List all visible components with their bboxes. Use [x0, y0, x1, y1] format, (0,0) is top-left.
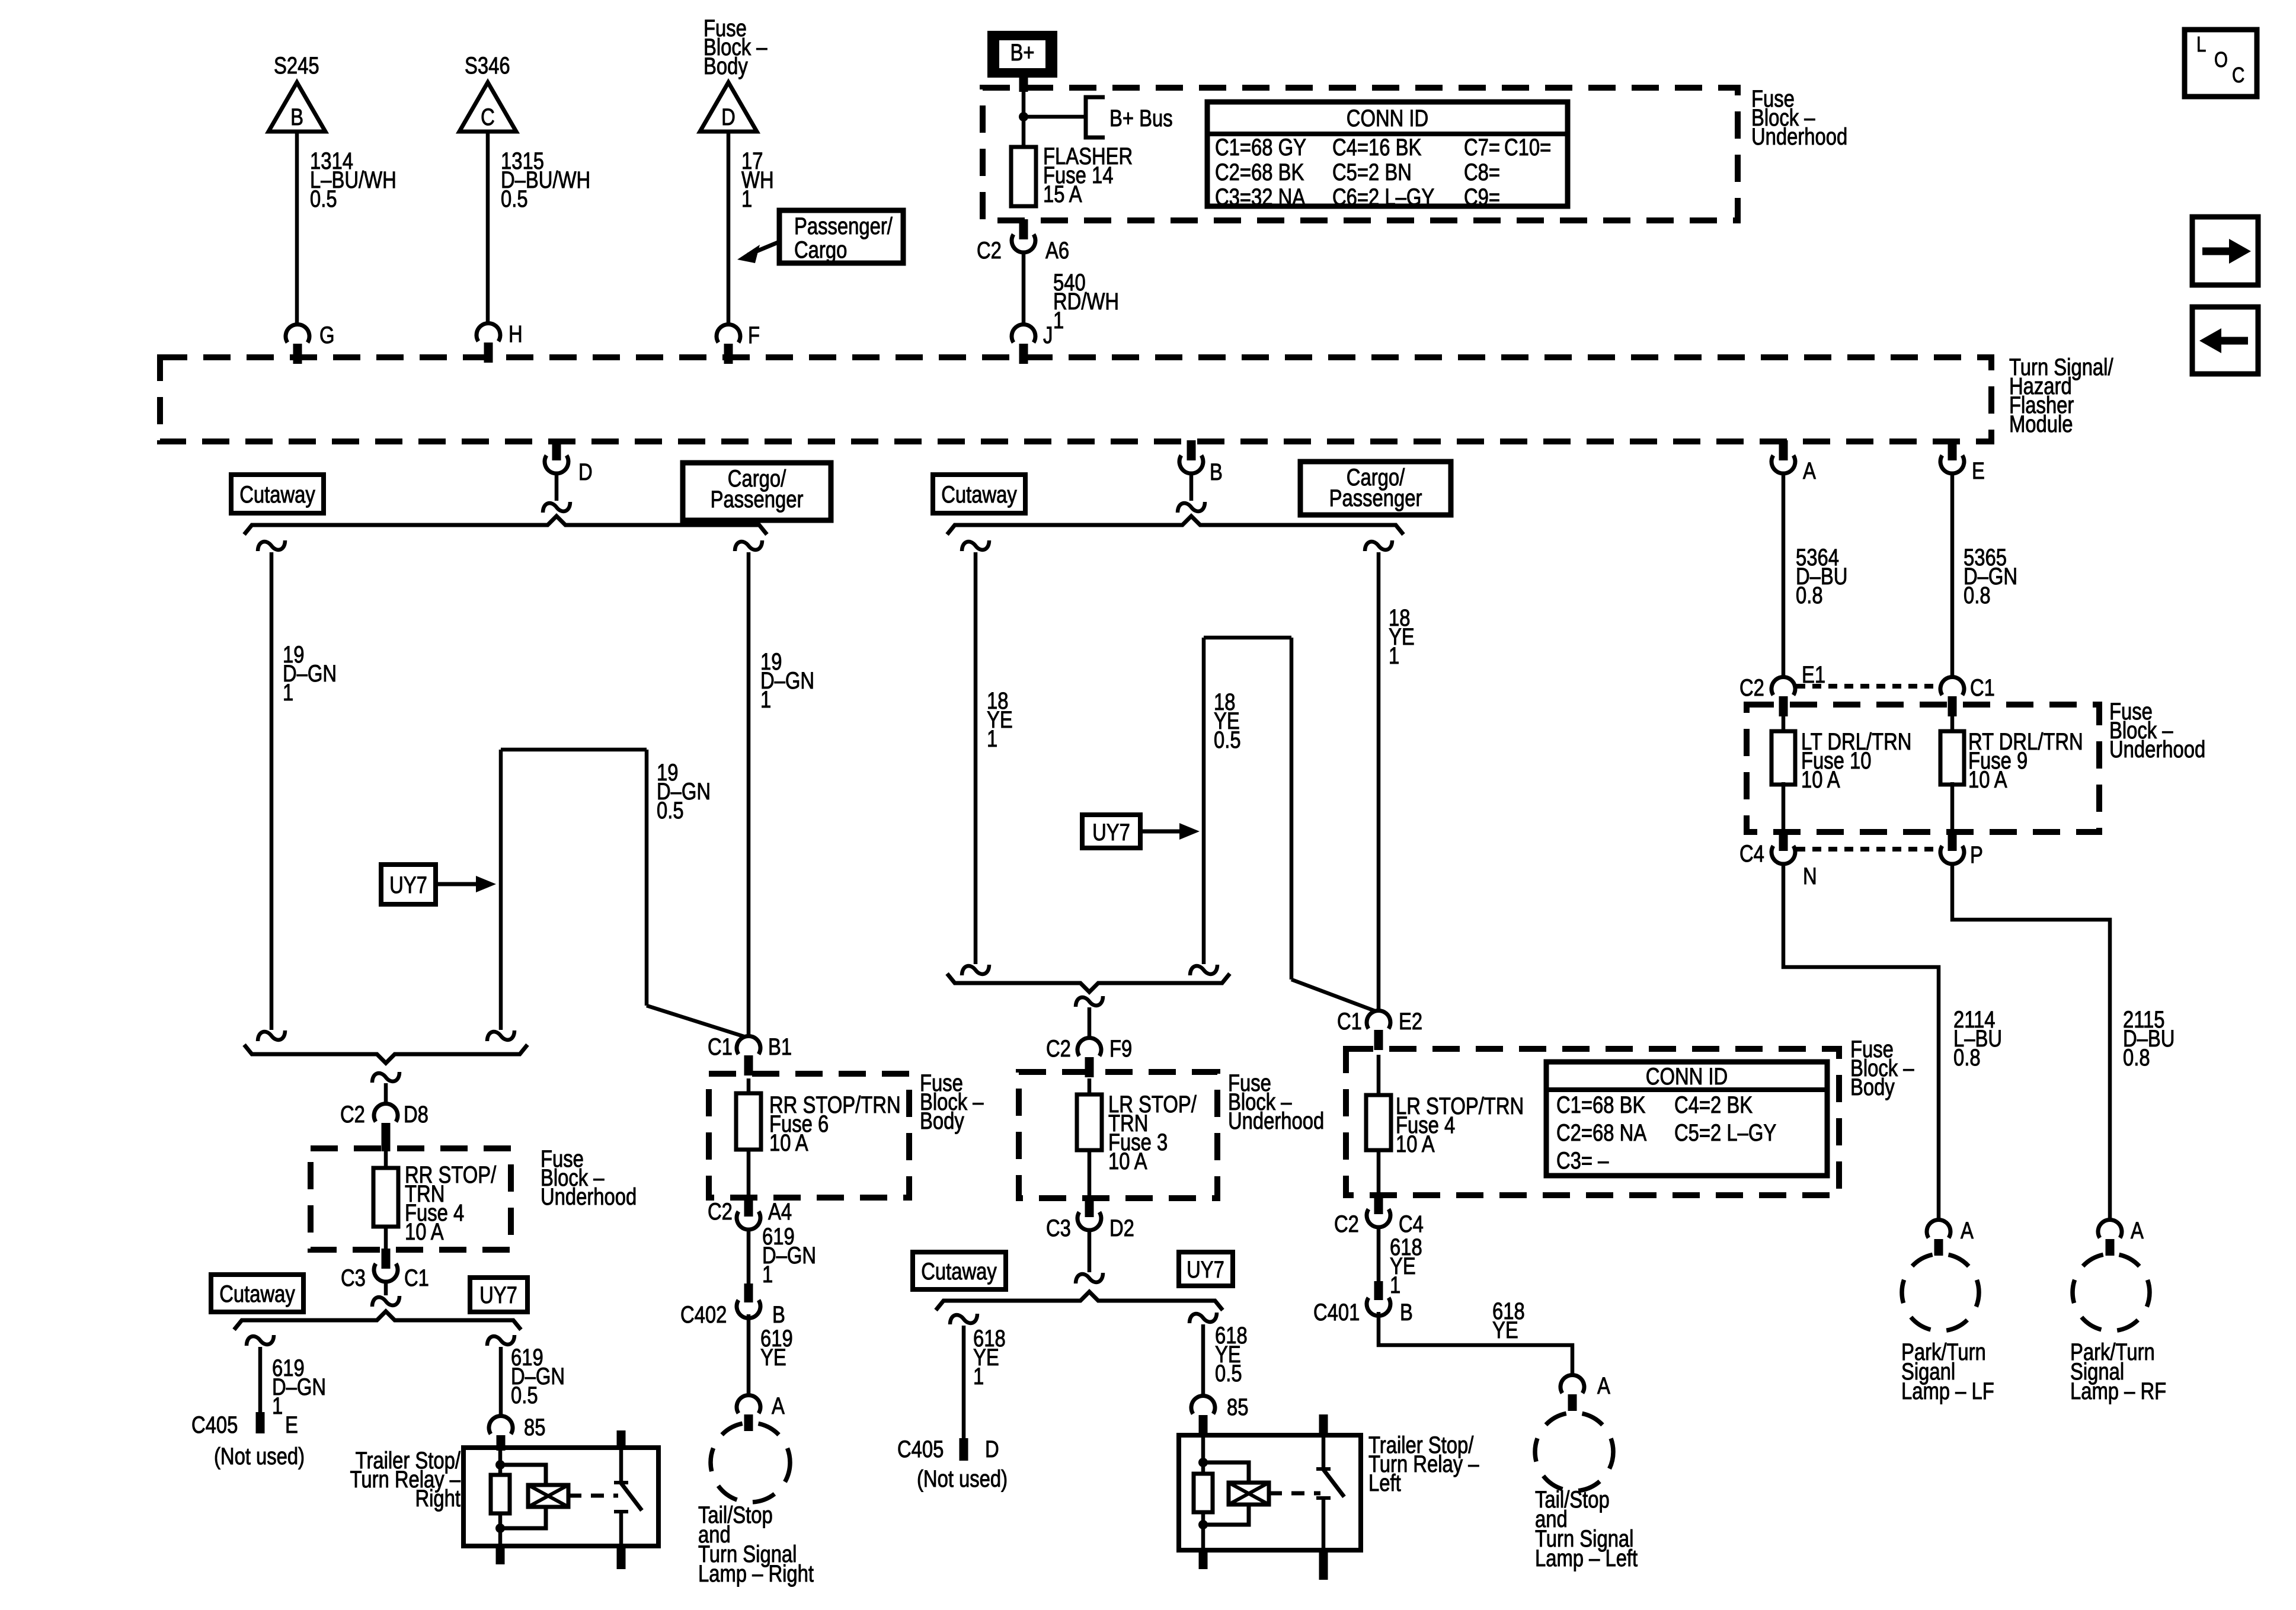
svg-text:B: B — [1400, 1299, 1413, 1326]
svg-text:(Not used): (Not used) — [214, 1443, 305, 1470]
svg-text:YE: YE — [760, 1344, 786, 1371]
svg-text:A: A — [1961, 1217, 1974, 1244]
svg-text:0.5: 0.5 — [657, 797, 684, 824]
svg-text:UY7: UY7 — [479, 1282, 517, 1308]
svg-text:C9=: C9= — [1464, 184, 1500, 210]
svg-text:Cutaway: Cutaway — [921, 1258, 997, 1285]
svg-text:1: 1 — [973, 1363, 984, 1390]
svg-text:10 A: 10 A — [1968, 766, 2007, 793]
svg-text:1: 1 — [1389, 642, 1399, 669]
svg-text:Cutaway: Cutaway — [941, 481, 1017, 508]
svg-text:O: O — [2214, 47, 2228, 71]
svg-text:C2=68 BK: C2=68 BK — [1215, 159, 1304, 185]
svg-text:C7=: C7= — [1464, 134, 1500, 161]
svg-text:Right: Right — [415, 1485, 461, 1512]
svg-text:C1=68 BK: C1=68 BK — [1556, 1092, 1645, 1118]
svg-text:A: A — [1597, 1372, 1610, 1399]
svg-text:15 A: 15 A — [1043, 181, 1082, 207]
svg-text:Passenger: Passenger — [1329, 485, 1422, 511]
svg-text:0.5: 0.5 — [310, 185, 337, 212]
svg-text:C6=2 L–GY: C6=2 L–GY — [1332, 184, 1434, 210]
svg-text:UY7: UY7 — [1187, 1256, 1224, 1283]
svg-text:Lamp – LF: Lamp – LF — [1901, 1378, 1994, 1404]
svg-text:C5=2 BN: C5=2 BN — [1332, 159, 1412, 185]
svg-text:Body: Body — [920, 1108, 964, 1134]
svg-text:C4: C4 — [1739, 840, 1764, 867]
svg-text:0.5: 0.5 — [501, 185, 528, 212]
svg-text:85: 85 — [1227, 1394, 1248, 1420]
svg-text:Underhood: Underhood — [541, 1183, 637, 1210]
svg-text:C4=16 BK: C4=16 BK — [1332, 134, 1421, 161]
svg-text:C2: C2 — [1046, 1035, 1071, 1062]
svg-text:Cutaway: Cutaway — [239, 481, 315, 508]
svg-text:A4: A4 — [768, 1198, 792, 1225]
svg-text:UY7: UY7 — [1092, 819, 1130, 846]
svg-text:Lamp – Right: Lamp – Right — [698, 1560, 814, 1587]
svg-text:C402: C402 — [680, 1301, 727, 1328]
svg-text:G: G — [319, 322, 335, 348]
svg-text:F: F — [748, 322, 760, 348]
svg-text:Lamp – RF: Lamp – RF — [2070, 1378, 2166, 1404]
svg-text:C405: C405 — [191, 1411, 238, 1438]
svg-text:C5=2 L–GY: C5=2 L–GY — [1674, 1119, 1776, 1146]
svg-text:0.8: 0.8 — [2123, 1044, 2150, 1071]
svg-text:C3= –: C3= – — [1556, 1147, 1609, 1174]
svg-text:0.5: 0.5 — [1215, 1360, 1242, 1387]
svg-text:1: 1 — [762, 1261, 773, 1288]
svg-text:85: 85 — [524, 1414, 545, 1441]
svg-text:C3=32 NA: C3=32 NA — [1215, 184, 1306, 210]
svg-text:Passenger: Passenger — [711, 486, 804, 513]
svg-text:E: E — [285, 1411, 298, 1438]
svg-text:C1: C1 — [708, 1033, 733, 1060]
svg-text:C: C — [481, 104, 495, 130]
svg-text:F9: F9 — [1109, 1035, 1132, 1062]
svg-text:A: A — [772, 1393, 785, 1419]
svg-text:Left: Left — [1368, 1470, 1401, 1496]
svg-text:Body: Body — [1850, 1074, 1895, 1100]
svg-text:10 A: 10 A — [405, 1218, 444, 1245]
svg-text:C3: C3 — [1046, 1215, 1071, 1241]
svg-text:D: D — [985, 1436, 999, 1462]
svg-text:E2: E2 — [1399, 1008, 1422, 1035]
svg-text:C1: C1 — [1970, 674, 1995, 701]
svg-text:Body: Body — [703, 53, 748, 79]
svg-text:C1: C1 — [404, 1265, 429, 1291]
svg-text:D: D — [578, 459, 593, 485]
svg-text:C405: C405 — [897, 1436, 944, 1462]
svg-text:C1=68 GY: C1=68 GY — [1215, 134, 1306, 161]
svg-text:D: D — [721, 104, 736, 130]
svg-text:1: 1 — [741, 185, 752, 212]
svg-text:1: 1 — [1390, 1272, 1400, 1298]
svg-text:C10=: C10= — [1504, 134, 1551, 161]
svg-text:C8=: C8= — [1464, 159, 1500, 185]
svg-text:CONN ID: CONN ID — [1347, 105, 1428, 132]
svg-text:A6: A6 — [1045, 237, 1069, 264]
svg-text:C1: C1 — [1337, 1008, 1362, 1035]
svg-text:YE: YE — [1492, 1317, 1518, 1343]
svg-text:1: 1 — [272, 1393, 283, 1419]
svg-text:0.8: 0.8 — [1796, 582, 1823, 609]
svg-text:C: C — [2232, 63, 2244, 87]
svg-text:Underhood: Underhood — [1228, 1108, 1324, 1134]
svg-text:H: H — [509, 321, 523, 347]
svg-text:C2: C2 — [340, 1101, 365, 1128]
svg-text:C2: C2 — [977, 237, 1002, 264]
svg-text:0.5: 0.5 — [1214, 726, 1241, 753]
svg-text:10 A: 10 A — [1396, 1131, 1435, 1157]
svg-text:10 A: 10 A — [769, 1129, 808, 1156]
svg-text:E: E — [1972, 457, 1985, 484]
svg-text:Module: Module — [2009, 411, 2073, 437]
svg-text:C2: C2 — [1739, 674, 1764, 701]
svg-text:CONN ID: CONN ID — [1646, 1063, 1728, 1090]
svg-text:C2: C2 — [1334, 1211, 1359, 1237]
svg-text:P: P — [1970, 841, 1983, 868]
svg-text:1: 1 — [987, 725, 997, 752]
svg-text:10 A: 10 A — [1108, 1148, 1147, 1174]
svg-text:Underhood: Underhood — [1751, 123, 1847, 150]
svg-text:10 A: 10 A — [1801, 766, 1840, 793]
svg-text:C2: C2 — [708, 1198, 733, 1225]
svg-text:C2=68 NA: C2=68 NA — [1556, 1119, 1647, 1146]
svg-text:J: J — [1043, 322, 1053, 348]
svg-text:B1: B1 — [768, 1033, 792, 1060]
svg-text:Passenger/: Passenger/ — [794, 213, 893, 239]
svg-text:N: N — [1803, 863, 1817, 889]
svg-text:Lamp – Left: Lamp – Left — [1535, 1545, 1638, 1571]
svg-text:S245: S245 — [274, 52, 319, 79]
svg-text:S346: S346 — [465, 52, 510, 79]
svg-text:D2: D2 — [1109, 1215, 1134, 1241]
svg-text:C4=2 BK: C4=2 BK — [1674, 1092, 1753, 1118]
svg-text:0.8: 0.8 — [1964, 582, 1991, 609]
svg-text:0.5: 0.5 — [511, 1382, 538, 1409]
svg-text:Cutaway: Cutaway — [219, 1281, 295, 1307]
svg-text:B+: B+ — [1010, 39, 1034, 66]
svg-text:0.8: 0.8 — [1953, 1044, 1981, 1071]
svg-text:B: B — [772, 1301, 785, 1328]
svg-text:C401: C401 — [1313, 1299, 1360, 1326]
svg-text:Underhood: Underhood — [2109, 736, 2205, 763]
svg-text:L: L — [2196, 32, 2206, 56]
svg-text:Cargo: Cargo — [794, 236, 847, 263]
svg-text:B+ Bus: B+ Bus — [1109, 105, 1173, 132]
svg-text:A: A — [1803, 457, 1816, 484]
svg-text:A: A — [2131, 1217, 2144, 1244]
svg-text:1: 1 — [1053, 307, 1064, 334]
svg-text:(Not used): (Not used) — [917, 1465, 1008, 1492]
svg-text:B: B — [1210, 459, 1223, 485]
svg-text:C3: C3 — [341, 1265, 366, 1291]
svg-text:B: B — [290, 104, 303, 130]
svg-text:D8: D8 — [404, 1101, 428, 1128]
svg-text:1: 1 — [283, 679, 293, 706]
svg-text:1: 1 — [760, 686, 771, 713]
svg-text:UY7: UY7 — [389, 872, 427, 898]
